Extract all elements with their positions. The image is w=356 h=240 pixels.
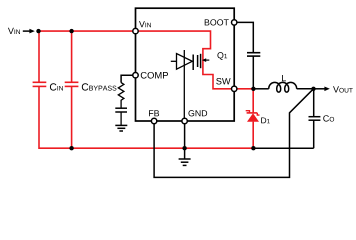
VIN input arrow	[23, 29, 35, 34]
capacitor C-comp	[115, 108, 127, 125]
wire: feedback path VOUT to FB	[154, 89, 313, 178]
ground symbol (main)	[179, 159, 191, 165]
capacitor CBYPASS	[65, 82, 117, 90]
wire: GND pin to ground symbol	[184, 121, 186, 159]
pin SW	[216, 78, 237, 92]
VOUT arrow	[314, 86, 353, 92]
node: GND rail junction	[182, 146, 186, 150]
node: D1 anode junction	[251, 146, 255, 150]
IC U1 box	[136, 8, 235, 121]
diode D1	[246, 89, 270, 148]
wire: SW rail to inductor	[253, 88, 268, 90]
ground symbol (comp network)	[115, 125, 127, 131]
wire: VIN rail to IC (red) and internal drain path to Q1 and SW	[38, 31, 253, 89]
pin VIN	[133, 21, 151, 34]
capacitor Co	[309, 89, 335, 148]
node: CBYPASS top junction	[69, 29, 73, 33]
node: SW junction	[251, 87, 255, 91]
wire: driver rail to GND pin	[183, 50, 185, 121]
wire: inductor to VOUT node	[297, 88, 314, 90]
gate driver triangle	[171, 54, 193, 71]
wire: ground rail (red) CIN to D1 anode	[39, 31, 253, 148]
wire: output ground return (black)	[253, 147, 313, 149]
capacitor C-boot (bootstrap)	[234, 22, 260, 88]
capacitor CIN	[33, 82, 63, 90]
pin BOOT	[205, 19, 237, 25]
pin GND	[182, 110, 207, 124]
node: CBYPASS bottom junction	[69, 146, 73, 150]
node: VOUT junction	[311, 87, 315, 91]
pin COMP	[133, 72, 168, 79]
pin FB	[149, 110, 159, 123]
node: CIN top junction	[36, 29, 40, 33]
transistor Q1	[198, 52, 228, 68]
label VIN source	[8, 28, 20, 34]
resistor R-comp	[118, 83, 124, 109]
wire: COMP pin to compensation network	[121, 75, 135, 82]
inductor L	[269, 75, 297, 92]
